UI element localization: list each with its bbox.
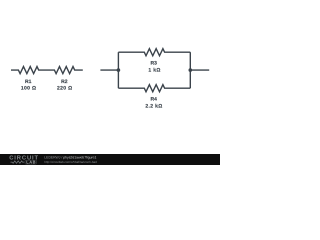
wire left vertical of parallel box — [117, 52, 119, 88]
wire bottom rail with resistor R4 — [118, 85, 190, 92]
svg-text:LAB: LAB — [26, 160, 36, 165]
svg-text:R4: R4 — [150, 97, 157, 103]
svg-text:2.2 kΩ: 2.2 kΩ — [145, 103, 162, 109]
svg-text:R1: R1 — [25, 79, 32, 85]
wire right vertical of parallel box — [189, 52, 191, 88]
wire top rail with resistor R3 — [118, 49, 190, 56]
svg-text:1 kΩ: 1 kΩ — [148, 67, 160, 73]
footer watermark bar — [0, 154, 220, 165]
wire right lead of parallel box — [190, 69, 209, 71]
svg-text:R2: R2 — [61, 79, 68, 85]
node junction right — [189, 68, 193, 72]
node junction left — [117, 68, 121, 72]
CircuitLab logo LAB badge — [25, 160, 37, 164]
svg-text:100 Ω: 100 Ω — [21, 86, 37, 92]
wire left lead of parallel box — [100, 69, 118, 71]
wire series branch with resistor R1 and resistor R2 — [11, 67, 83, 74]
CircuitLab logo resistor zigzag — [11, 161, 25, 163]
svg-text:220 Ω: 220 Ω — [57, 86, 73, 92]
svg-text:http://circuitlab.com/c/5baf3a: http://circuitlab.com/c/5baf3a/uroch-bad — [44, 160, 97, 164]
svg-text:R3: R3 — [150, 61, 157, 67]
svg-text:LEDERWJ / phys261aweb7figure1: LEDERWJ / phys261aweb7figure1 — [44, 155, 96, 159]
